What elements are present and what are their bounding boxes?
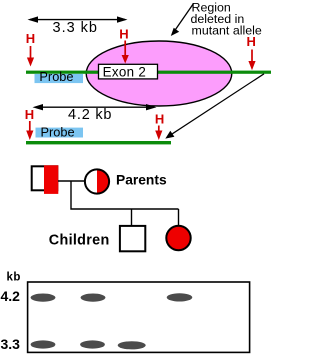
allele line 2 [26,141,171,144]
svg-text:mutant allele: mutant allele [192,24,262,38]
couple line [58,180,85,182]
arrow H3 [248,50,255,71]
band 4.2 lane 4 [167,293,193,301]
svg-text:4.2: 4.2 [1,288,21,304]
svg-text:Probe: Probe [41,124,75,139]
pedigree child affected circle [166,226,190,250]
svg-text:Probe: Probe [39,69,73,84]
dimension arrow 3.3 kb [28,16,128,22]
band 3.3 lane 3 [118,341,146,349]
band 4.2 lane 2 [81,294,106,302]
svg-text:3.3: 3.3 [1,336,21,352]
annotation: region deleted in mutant allele [191,1,262,38]
exon 2 box [99,64,158,79]
svg-text:Parents: Parents [116,173,167,188]
svg-text:Exon 2: Exon 2 [103,64,147,79]
band 3.3 lane 1 [31,340,56,348]
arrow H4 [26,121,33,140]
pedigree mother carrier circle [85,169,110,194]
svg-text:H: H [25,107,34,122]
svg-text:3.3 kb: 3.3 kb [53,20,99,36]
descent line [71,181,179,209]
svg-text:H: H [26,31,35,46]
leader arrow to ellipse [171,4,194,37]
svg-text:H: H [119,27,128,42]
svg-text:H: H [155,111,164,126]
svg-text:4.2 kb: 4.2 kb [68,107,112,123]
svg-text:kb: kb [7,272,21,284]
svg-text:Children: Children [49,232,110,248]
arrow H1 [27,46,34,67]
band 3.3 lane 2 [80,340,105,348]
probe box 1 [35,74,84,83]
sib drop line 1 [131,209,133,226]
leader arrow to mutant allele line [165,74,264,139]
band 4.2 lane 1 [31,294,56,302]
allele line 1 [26,71,271,74]
deleted-region ellipse [86,41,232,106]
arrow H5 [155,126,162,141]
pedigree child unaffected square [120,226,145,251]
pedigree father carrier square [32,165,59,194]
arrow H2 [122,41,129,64]
probe box 2 [36,128,84,138]
sib drop line 2 [178,209,180,226]
dimension arrow 4.2 kb [33,104,157,110]
gel box [28,282,250,352]
